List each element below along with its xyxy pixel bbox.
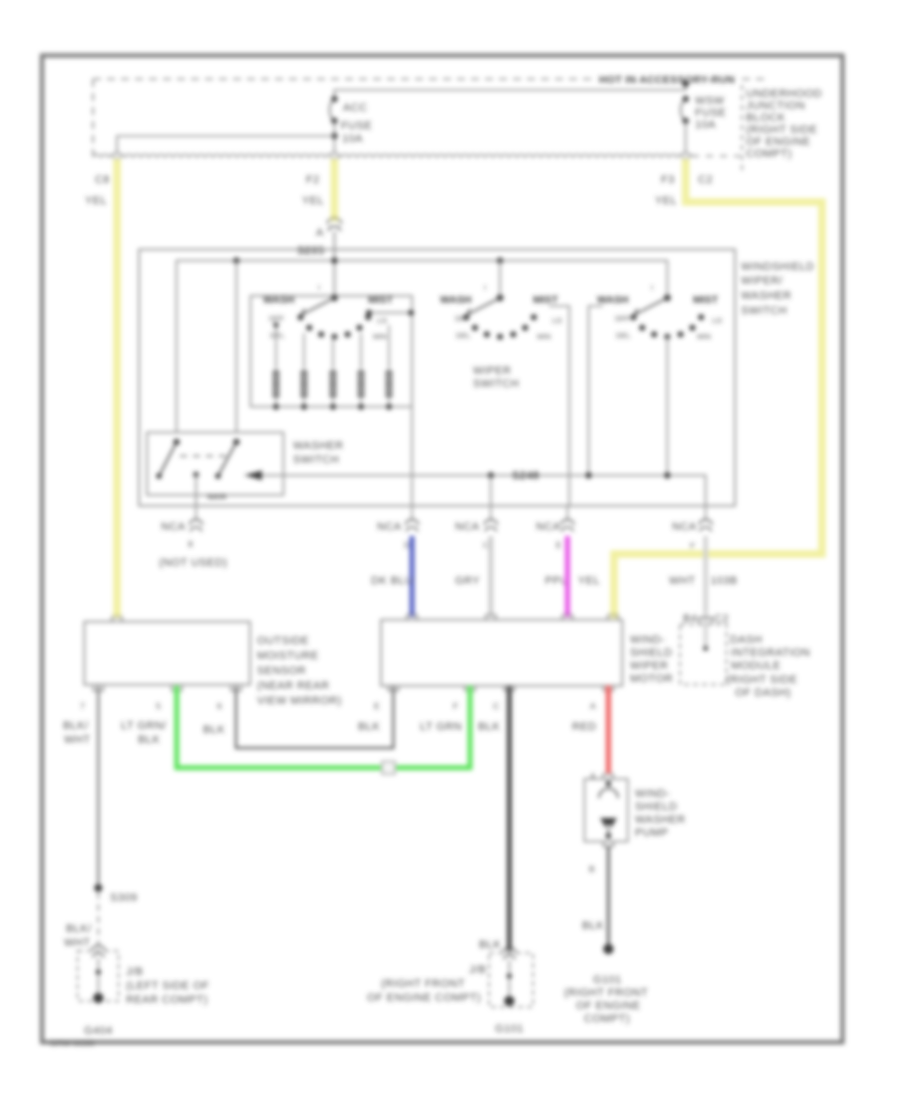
washer output arrow [244, 471, 262, 481]
wafer 3 pivot [664, 294, 671, 301]
svg-text:WASH: WASH [263, 294, 295, 306]
wire GRY drop inside box [490, 475, 492, 506]
svg-text:SHIELD: SHIELD [630, 647, 672, 659]
wire wafer1 HI contact to resistor block edge [368, 312, 412, 314]
svg-text:SWITCH: SWITCH [473, 378, 519, 390]
pin bump washer pump A [603, 774, 613, 779]
pin bumps motor box bottom [388, 686, 613, 691]
svg-text:MIST: MIST [693, 294, 719, 306]
wiper delay resistor block box [251, 296, 412, 407]
terminal inside rear J/B [96, 969, 101, 974]
svg-text:C2: C2 [698, 174, 713, 186]
wafer 1 pivot [331, 294, 338, 301]
svg-text:OF ENGINE: OF ENGINE [576, 1000, 641, 1012]
washer pump motor symbol [600, 818, 617, 828]
connector NCA stub E [561, 506, 574, 532]
underhood junction block dashed outline top edge right stub [742, 78, 766, 80]
washer switch pivot 1 [173, 439, 179, 445]
svg-text:COMPT): COMPT) [584, 1013, 630, 1025]
svg-text:INTEGRATION: INTEGRATION [731, 647, 810, 659]
wire branch to left connector C8 [117, 136, 334, 153]
svg-text:MOTOR: MOTOR [630, 673, 673, 685]
pin bump motor D [407, 615, 417, 620]
terminal washer pump bottom [606, 833, 612, 839]
wire contact drop to resistor 4 [360, 333, 362, 371]
svg-text:DEL: DEL [456, 331, 471, 340]
wafer 1 contact arc dots [298, 314, 372, 340]
wire RED motor A to washer pump [606, 686, 611, 773]
svg-text:OF ENGINE: OF ENGINE [746, 136, 811, 148]
svg-text:8: 8 [188, 539, 193, 549]
svg-text:NCA: NCA [455, 521, 480, 533]
wire resistor 4 to block bottom [360, 397, 362, 407]
svg-text:NCA: NCA [161, 521, 186, 533]
windshield washer pump box [584, 779, 627, 842]
underhood junction block dashed bottom edge right of fuse [692, 155, 740, 157]
svg-text:WHT: WHT [64, 734, 90, 746]
svg-text:(NEAR REAR: (NEAR REAR [257, 680, 329, 692]
svg-text:WSW: WSW [695, 95, 725, 107]
svg-text:MODULE: MODULE [731, 660, 781, 672]
inline connector A at switch [327, 218, 341, 231]
svg-text:D: D [404, 540, 410, 550]
svg-text:(RIGHT SIDE: (RIGHT SIDE [746, 124, 817, 136]
svg-text:OF DASH): OF DASH) [735, 687, 791, 699]
svg-text:NCA: NCA [536, 521, 561, 533]
inline connector on LT GRN wire [382, 762, 395, 775]
svg-text:G404: G404 [84, 1025, 113, 1037]
wire feed bus inside switch [177, 261, 668, 433]
resistor R5 delay [386, 371, 393, 397]
engine junction block dashed box [489, 953, 533, 1007]
wire pump internal [607, 828, 609, 836]
svg-text:S248: S248 [512, 470, 540, 482]
node fuse output junction [331, 133, 337, 139]
svg-text:S205: S205 [297, 245, 325, 257]
wafer 3 arm [632, 298, 667, 320]
wire bus branch to wafer 2 pivot [499, 261, 501, 298]
svg-text:G101: G101 [593, 974, 622, 986]
node washer line at wafer3 bottom [664, 472, 670, 478]
svg-text:I: I [651, 283, 653, 292]
svg-text:SENSOR: SENSOR [257, 665, 306, 677]
node HI at block edge [408, 310, 414, 316]
svg-text:FUSE: FUSE [341, 120, 372, 132]
pin bump motor E [563, 615, 573, 620]
wafer 1 arm [299, 298, 334, 320]
connector NCA stub D [406, 506, 419, 532]
washer switch arm 2 [218, 442, 236, 476]
svg-text:A: A [590, 771, 596, 781]
wire YEL left drop C8 to moisture sensor [113, 159, 121, 618]
svg-text:BLK: BLK [358, 721, 380, 733]
svg-text:F2: F2 [306, 174, 320, 186]
wire BLK/WHT sensor ground drop [97, 686, 99, 888]
svg-text:WIND-: WIND- [630, 634, 665, 646]
svg-text:F3: F3 [661, 174, 675, 186]
svg-text:MIN: MIN [537, 332, 551, 341]
svg-text:BLK/: BLK/ [63, 720, 89, 732]
washer switch contact to NCA stub [193, 472, 199, 478]
resistor R4 delay [358, 371, 365, 397]
svg-text:LO: LO [552, 316, 562, 325]
svg-text:WIPER/: WIPER/ [741, 275, 783, 287]
resistor R2 delay [301, 371, 308, 397]
svg-text:WIPER: WIPER [473, 365, 511, 377]
wire resistor 5 to block bottom [388, 397, 390, 407]
wire resistor block output to connector D [411, 407, 413, 506]
svg-text:J/B: J/B [469, 964, 486, 976]
svg-text:GRY: GRY [455, 575, 480, 587]
svg-text:J/B: J/B [126, 966, 143, 978]
wire connector A into switch [333, 231, 335, 298]
washer switch gang dashed link [180, 455, 232, 457]
node bus at wiper wafer 2 [497, 257, 503, 263]
svg-text:6: 6 [217, 701, 222, 711]
svg-text:REAR COMPT): REAR COMPT) [126, 994, 208, 1006]
svg-text:WHT: WHT [669, 575, 695, 587]
svg-text:LO: LO [712, 316, 722, 325]
svg-text:VIEW MIRROR): VIEW MIRROR) [257, 695, 342, 707]
svg-text:BLK/: BLK/ [66, 923, 92, 935]
svg-text:103B: 103B [710, 575, 738, 587]
svg-text:JUNCTION: JUNCTION [746, 100, 805, 112]
wire wafer2 HI contact to PPL drop [549, 306, 569, 506]
wire fuse WSW output down [685, 121, 687, 153]
wire hot feed bus inside junction block [334, 84, 685, 97]
wafer 2 pivot [497, 294, 504, 301]
wire YEL right F3 run to wiper motor [614, 159, 822, 618]
svg-text:I: I [484, 283, 486, 292]
pin bumps sensor box bottom [93, 686, 241, 691]
wire washer contact down [195, 475, 197, 506]
terminal washer pump top [606, 781, 612, 787]
border frame [42, 56, 843, 1043]
wire inside rear J/B [97, 958, 99, 998]
washer pump nozzle arc symbol [599, 789, 618, 799]
underhood junction block dashed label divider [741, 85, 743, 175]
wire below splice [97, 892, 99, 947]
node HI contact [366, 310, 372, 316]
wire fuse ACC output down [333, 121, 335, 153]
washer switch arm 2 tip [215, 473, 221, 479]
pin bump motor C [486, 615, 496, 620]
svg-text:PPL: PPL [545, 575, 567, 587]
svg-text:SHIELD: SHIELD [635, 801, 677, 813]
svg-text:BLK: BLK [138, 734, 160, 746]
svg-text:MOISTURE: MOISTURE [257, 650, 319, 662]
svg-text:OFF: OFF [615, 314, 630, 323]
svg-text:I: I [318, 283, 320, 292]
svg-text:(LEFT SIDE OF: (LEFT SIDE OF [126, 980, 209, 992]
svg-text:MIST: MIST [368, 294, 394, 306]
underhood junction block dashed outline top edge [93, 78, 597, 80]
svg-text:WASHER: WASHER [635, 814, 686, 826]
fuse ACC 10A [330, 96, 338, 124]
svg-text:(RIGHT SIDE: (RIGHT SIDE [726, 674, 797, 686]
connector pass-through F3 at block edge [682, 153, 689, 160]
wire inside engine J/B [508, 960, 510, 1001]
connector pass-through F2 at block edge [331, 153, 338, 160]
connector B4 C2 to dash integration module [700, 618, 712, 625]
svg-text:S309: S309 [110, 892, 138, 904]
svg-text:B4: B4 [683, 613, 697, 625]
dash integration module dashed box [680, 625, 727, 685]
wafer 2 contact arc dots [463, 314, 537, 340]
svg-text:E: E [556, 540, 562, 550]
ground G101 dot [603, 944, 613, 954]
svg-text:(RIGHT FRONT: (RIGHT FRONT [381, 978, 465, 990]
wire PPL to wiper motor [565, 536, 570, 617]
terminal inside DIM [703, 645, 708, 650]
ground dot engine J/B [504, 996, 514, 1006]
wire resistor 1 to block bottom [275, 397, 277, 407]
svg-text:(RIGHT FRONT: (RIGHT FRONT [564, 987, 648, 999]
wire contact drop to resistor 2 [303, 333, 305, 371]
svg-text:YEL: YEL [655, 195, 677, 207]
svg-text:SWITCH: SWITCH [741, 305, 787, 317]
wire wafer3 WASH contact drop [589, 306, 603, 475]
svg-text:F: F [690, 541, 695, 551]
svg-text:MIN: MIN [373, 332, 387, 341]
svg-text:BLK: BLK [203, 724, 225, 736]
svg-text:C8: C8 [95, 174, 110, 186]
connector NCA stub C [484, 506, 497, 532]
pin bump pump box bottom [603, 842, 613, 847]
svg-text:WHT: WHT [64, 937, 90, 949]
connector pass-through C8 at block edge [114, 153, 121, 160]
wire WHT outline hint [705, 536, 707, 612]
svg-text:F: F [453, 701, 458, 711]
svg-text:BLK: BLK [478, 721, 500, 733]
wafer 3 contact arc dots [631, 314, 705, 340]
svg-text:(NOT USED): (NOT USED) [159, 557, 227, 569]
svg-text:RED: RED [572, 721, 597, 733]
connector NCA stub F [699, 506, 712, 532]
svg-text:WASH: WASH [597, 294, 629, 306]
svg-text:C: C [493, 701, 499, 711]
rear junction block dashed box [78, 951, 119, 1001]
svg-text:E: E [374, 701, 380, 711]
svg-text:WIPER: WIPER [630, 660, 668, 672]
svg-text:OF ENGINE COMPT): OF ENGINE COMPT) [367, 992, 481, 1004]
underhood junction block dashed outline left edge [92, 79, 94, 156]
node bus at wiper wafer 1 [331, 257, 337, 263]
svg-text:YEL: YEL [302, 195, 324, 207]
svg-text:C: C [483, 540, 489, 550]
svg-text:BLK: BLK [582, 920, 604, 932]
svg-text:WIND-: WIND- [635, 788, 670, 800]
ground G404 dot [93, 993, 103, 1003]
svg-text:OFF: OFF [269, 314, 284, 323]
washer switch pivot 2 [233, 439, 239, 445]
wire resistor 3 to block bottom [332, 397, 334, 407]
svg-text:YEL: YEL [578, 575, 600, 587]
svg-text:YEL: YEL [85, 195, 107, 207]
svg-text:WASHER: WASHER [293, 440, 344, 452]
wire YEL center F2 drop [331, 159, 339, 221]
svg-text:NCA: NCA [377, 521, 402, 533]
node bus at washer switch branch [233, 257, 239, 263]
wafer 2 arm [465, 298, 500, 320]
svg-text:NCA: NCA [672, 521, 697, 533]
washer switch arm 1 tip [156, 473, 162, 479]
svg-text:HOT IN ACCESSORY-RUN: HOT IN ACCESSORY-RUN [599, 74, 735, 86]
wire contact drop to resistor 1 [275, 325, 277, 371]
svg-text:UNDERHOOD: UNDERHOOD [746, 88, 822, 100]
svg-text:C2: C2 [714, 613, 729, 625]
svg-text:B: B [589, 864, 595, 874]
svg-text:WASHER: WASHER [741, 290, 792, 302]
node junction with hot bus dashed line [682, 81, 688, 87]
fuse WSW 10A [681, 96, 689, 124]
wire contact drop to resistor 5 [388, 325, 390, 371]
inline connector engine junction block [503, 948, 516, 960]
svg-text:S2O5: S2O5 [207, 492, 226, 501]
svg-text:DASH: DASH [730, 634, 762, 646]
outside moisture sensor box [84, 622, 250, 685]
resistor R3 delay [330, 371, 337, 397]
wire wafer3 bottom contact drop [666, 337, 668, 476]
windshield wiper motor box [381, 620, 622, 686]
node washer line at GRY drop [488, 472, 494, 478]
pin bump moisture sensor top [112, 617, 122, 622]
terminal inside engine J/B [507, 973, 512, 978]
svg-text:FUSE: FUSE [695, 107, 726, 119]
wire bus branch to washer switch pivot 2 [235, 261, 237, 433]
svg-text:BLOCK: BLOCK [746, 112, 786, 124]
inline connector A rear junction block [92, 946, 105, 958]
svg-text:DEL: DEL [616, 331, 631, 340]
svg-text:10A: 10A [695, 119, 716, 131]
wire contact drop to resistor 3 [332, 338, 334, 371]
svg-text:PUMP: PUMP [635, 827, 669, 839]
underhood junction block scalloped bottom edge [93, 155, 693, 158]
svg-text:GRW-0038I: GRW-0038I [50, 1038, 95, 1048]
svg-text:BLK: BLK [479, 939, 501, 951]
wire LT GRN sensor to motor F [177, 686, 470, 768]
svg-text:DK BLU: DK BLU [371, 575, 413, 587]
wire GRY to wiper motor [489, 536, 494, 617]
node washer line at wafer3 wash [585, 472, 591, 478]
svg-text:SWITCH: SWITCH [293, 454, 339, 466]
washer switch box [147, 432, 283, 495]
svg-text:MIST: MIST [533, 294, 559, 306]
wire washer signal line [262, 475, 706, 506]
svg-text:ACC: ACC [343, 102, 368, 114]
washer switch arm 1 [159, 442, 177, 476]
pin bump motor F top [608, 615, 618, 620]
svg-text:LO: LO [377, 316, 387, 325]
svg-text:10A: 10A [342, 133, 363, 145]
svg-text:LT GRN: LT GRN [420, 721, 462, 733]
splice S309 [94, 884, 102, 892]
svg-text:7: 7 [80, 701, 85, 711]
svg-text:A: A [590, 701, 596, 711]
svg-text:MIN: MIN [697, 332, 711, 341]
svg-text:OUTSIDE: OUTSIDE [257, 635, 309, 647]
resistor R1 delay [273, 371, 280, 397]
svg-text:WASH: WASH [440, 294, 472, 306]
svg-text:A: A [316, 227, 324, 239]
wire WHT to dash integration module [703, 536, 708, 648]
svg-text:G101: G101 [495, 1023, 524, 1035]
wire DK BLU to wiper motor [410, 536, 415, 617]
svg-text:DEL: DEL [270, 331, 285, 340]
svg-text:LT GRN/: LT GRN/ [121, 720, 167, 732]
svg-text:COMPT): COMPT) [746, 148, 792, 160]
wire resistor 2 to block bottom [303, 397, 305, 407]
wire BLK motor C ground drop [507, 686, 512, 951]
windshield wiper/washer switch box [139, 249, 735, 505]
svg-text:WINDSHIELD: WINDSHIELD [741, 261, 815, 273]
wire BLK washer pump ground [607, 846, 610, 947]
connector NCA stub 8 not used [190, 506, 203, 532]
svg-text:5: 5 [156, 701, 161, 711]
node contact resistor 1 [273, 322, 278, 327]
wire BLK sensor to motor E ground link [236, 686, 393, 748]
node resistor bus dots [273, 404, 392, 410]
